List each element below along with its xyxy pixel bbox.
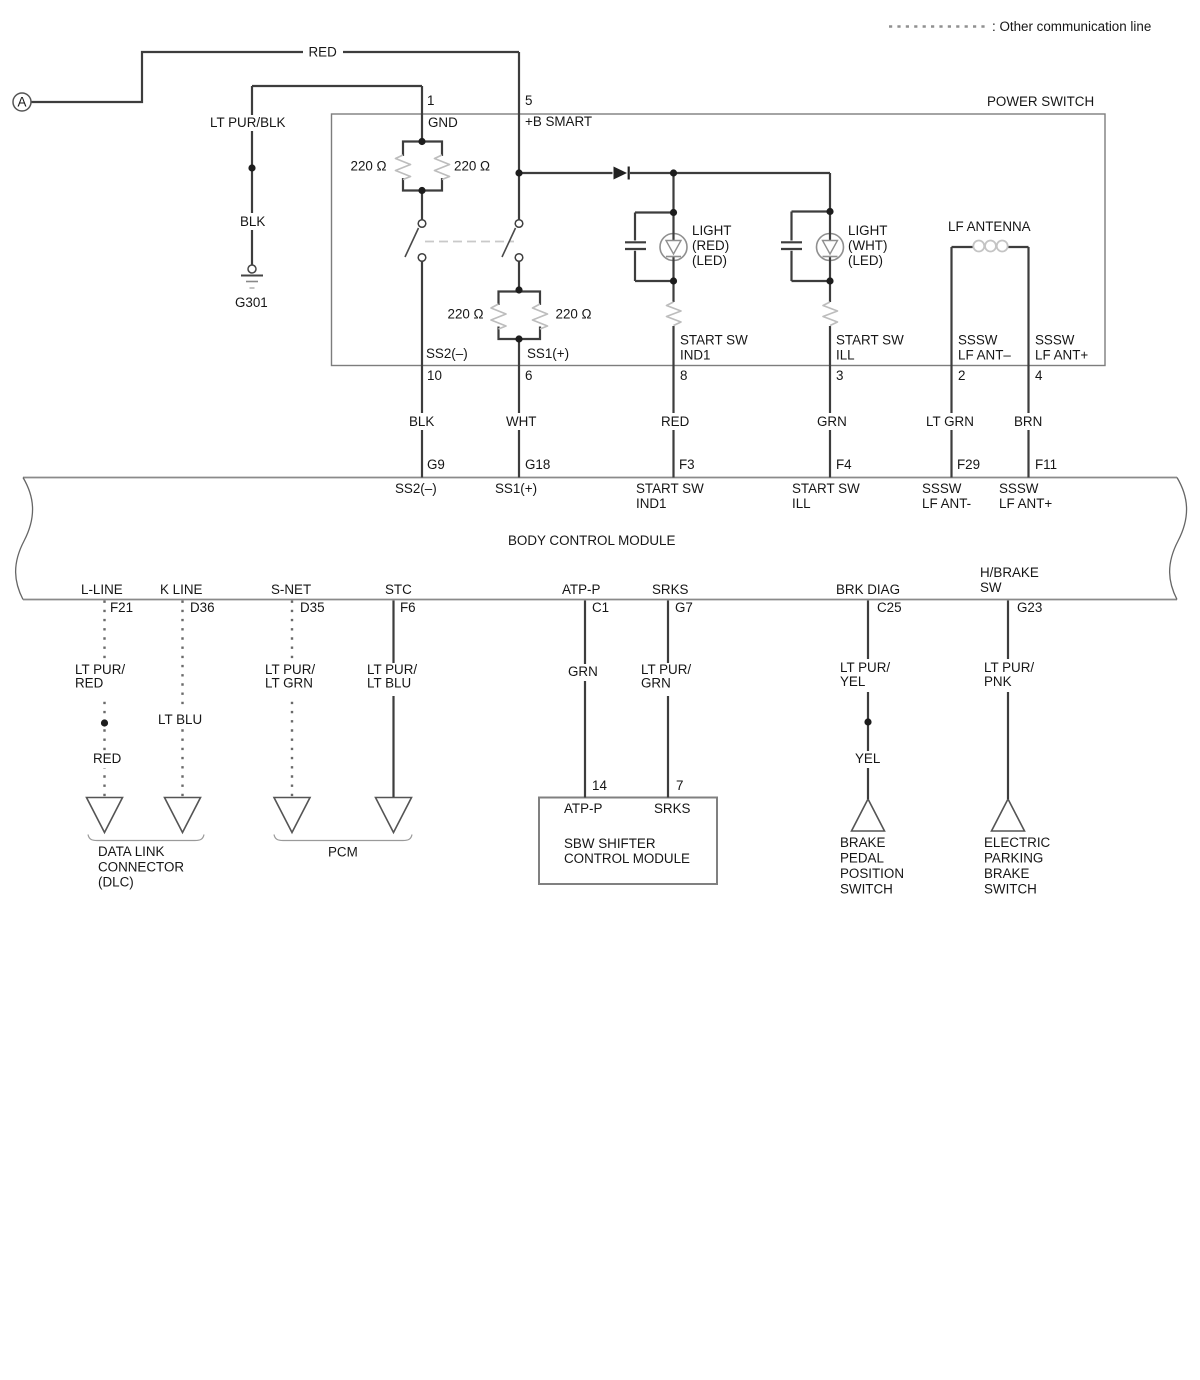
svg-text:14: 14 [592, 778, 607, 793]
svg-text:BRAKE: BRAKE [984, 866, 1029, 881]
svg-text:220 Ω: 220 Ω [556, 307, 592, 322]
svg-text:G18: G18 [525, 457, 550, 472]
svg-text:: Other communication line: : Other communication line [992, 19, 1151, 34]
svg-text:LIGHT: LIGHT [848, 223, 887, 238]
svg-text:G301: G301 [235, 295, 268, 310]
svg-text:C1: C1 [592, 600, 609, 615]
svg-text:LF ANT+: LF ANT+ [1035, 348, 1088, 363]
svg-text:(RED): (RED) [692, 238, 729, 253]
svg-text:L-LINE: L-LINE [81, 582, 123, 597]
svg-text:F4: F4 [836, 457, 852, 472]
svg-text:SS1(+): SS1(+) [495, 481, 537, 496]
svg-text:SS2(–): SS2(–) [395, 481, 437, 496]
svg-text:D36: D36 [190, 600, 215, 615]
svg-text:LF ANT-: LF ANT- [922, 496, 971, 511]
svg-text:LIGHT: LIGHT [692, 223, 731, 238]
svg-text:S-NET: S-NET [271, 582, 311, 597]
svg-text:SBW SHIFTER: SBW SHIFTER [564, 836, 656, 851]
svg-text:3: 3 [836, 368, 843, 383]
svg-text:LT PUR/: LT PUR/ [984, 660, 1034, 675]
svg-text:POWER SWITCH: POWER SWITCH [987, 94, 1094, 109]
svg-text:F29: F29 [957, 457, 980, 472]
svg-text:SSSW: SSSW [1035, 333, 1075, 348]
svg-text:SSSW: SSSW [999, 481, 1039, 496]
svg-text:SRKS: SRKS [654, 801, 691, 816]
svg-text:F21: F21 [110, 600, 133, 615]
svg-text:GND: GND [428, 115, 458, 130]
svg-text:RED: RED [75, 676, 104, 691]
svg-text:G7: G7 [675, 600, 693, 615]
svg-text:ILL: ILL [792, 496, 811, 511]
svg-text:LF ANT+: LF ANT+ [999, 496, 1052, 511]
svg-text:START SW: START SW [636, 481, 704, 496]
svg-text:SRKS: SRKS [652, 582, 689, 597]
svg-text:BLK: BLK [240, 214, 265, 229]
svg-text:BRN: BRN [1014, 414, 1042, 429]
svg-text:SW: SW [980, 580, 1002, 595]
svg-text:BRK DIAG: BRK DIAG [836, 582, 900, 597]
svg-text:GRN: GRN [568, 664, 598, 679]
svg-text:SS1(+): SS1(+) [527, 346, 569, 361]
svg-text:8: 8 [680, 368, 687, 383]
svg-text:(WHT): (WHT) [848, 238, 887, 253]
svg-text:LT BLU: LT BLU [367, 676, 411, 691]
svg-text:G23: G23 [1017, 600, 1042, 615]
svg-text:BODY CONTROL MODULE: BODY CONTROL MODULE [508, 533, 675, 548]
svg-text:SSSW: SSSW [958, 333, 998, 348]
svg-text:LT BLU: LT BLU [158, 712, 202, 727]
svg-text:5: 5 [525, 93, 532, 108]
svg-text:220 Ω: 220 Ω [448, 307, 484, 322]
svg-text:220 Ω: 220 Ω [351, 159, 387, 174]
svg-text:WHT: WHT [506, 414, 537, 429]
svg-text:7: 7 [676, 778, 683, 793]
svg-text:ILL: ILL [836, 348, 855, 363]
svg-text:ATP-P: ATP-P [564, 801, 603, 816]
svg-text:2: 2 [958, 368, 965, 383]
svg-text:A: A [18, 95, 27, 110]
svg-text:STC: STC [385, 582, 412, 597]
svg-text:PCM: PCM [328, 845, 358, 860]
svg-text:START SW: START SW [792, 481, 860, 496]
svg-text:LT PUR/: LT PUR/ [840, 660, 890, 675]
svg-text:PNK: PNK [984, 674, 1012, 689]
svg-text:+B SMART: +B SMART [525, 114, 592, 129]
svg-text:YEL: YEL [855, 751, 880, 766]
svg-text:POSITION: POSITION [840, 866, 904, 881]
svg-text:DATA LINK: DATA LINK [98, 844, 165, 859]
svg-text:(DLC): (DLC) [98, 875, 134, 890]
svg-text:IND1: IND1 [680, 348, 711, 363]
svg-text:(LED): (LED) [692, 253, 727, 268]
svg-text:C25: C25 [877, 600, 902, 615]
svg-text:H/BRAKE: H/BRAKE [980, 565, 1039, 580]
svg-text:SSSW: SSSW [922, 481, 962, 496]
svg-text:START SW: START SW [836, 333, 904, 348]
svg-text:D35: D35 [300, 600, 325, 615]
svg-text:220 Ω: 220 Ω [454, 159, 490, 174]
svg-text:F6: F6 [400, 600, 416, 615]
svg-text:K LINE: K LINE [160, 582, 202, 597]
svg-text:F3: F3 [679, 457, 695, 472]
svg-text:LT GRN: LT GRN [926, 414, 974, 429]
svg-text:RED: RED [661, 414, 690, 429]
svg-text:1: 1 [427, 93, 434, 108]
svg-text:PEDAL: PEDAL [840, 851, 884, 866]
svg-text:F11: F11 [1035, 457, 1057, 472]
svg-text:LF ANT–: LF ANT– [958, 348, 1011, 363]
svg-text:GRN: GRN [817, 414, 847, 429]
svg-text:START SW: START SW [680, 333, 748, 348]
svg-text:(LED): (LED) [848, 253, 883, 268]
svg-text:BRAKE: BRAKE [840, 835, 885, 850]
svg-text:G9: G9 [427, 457, 445, 472]
svg-text:ATP-P: ATP-P [562, 582, 601, 597]
svg-text:6: 6 [525, 368, 532, 383]
svg-text:LT GRN: LT GRN [265, 676, 313, 691]
svg-text:CONNECTOR: CONNECTOR [98, 860, 184, 875]
svg-text:ELECTRIC: ELECTRIC [984, 835, 1051, 850]
svg-text:SS2(–): SS2(–) [426, 346, 468, 361]
svg-text:YEL: YEL [840, 674, 865, 689]
svg-text:CONTROL MODULE: CONTROL MODULE [564, 851, 690, 866]
svg-text:RED: RED [93, 751, 122, 766]
svg-text:LT PUR/BLK: LT PUR/BLK [210, 115, 285, 130]
svg-text:IND1: IND1 [636, 496, 667, 511]
svg-text:LF ANTENNA: LF ANTENNA [948, 219, 1031, 234]
svg-text:10: 10 [427, 368, 442, 383]
svg-text:GRN: GRN [641, 676, 671, 691]
svg-text:PARKING: PARKING [984, 851, 1043, 866]
svg-text:RED: RED [309, 45, 338, 60]
svg-text:4: 4 [1035, 368, 1043, 383]
svg-text:BLK: BLK [409, 414, 434, 429]
svg-text:SWITCH: SWITCH [984, 882, 1037, 897]
svg-text:SWITCH: SWITCH [840, 882, 893, 897]
